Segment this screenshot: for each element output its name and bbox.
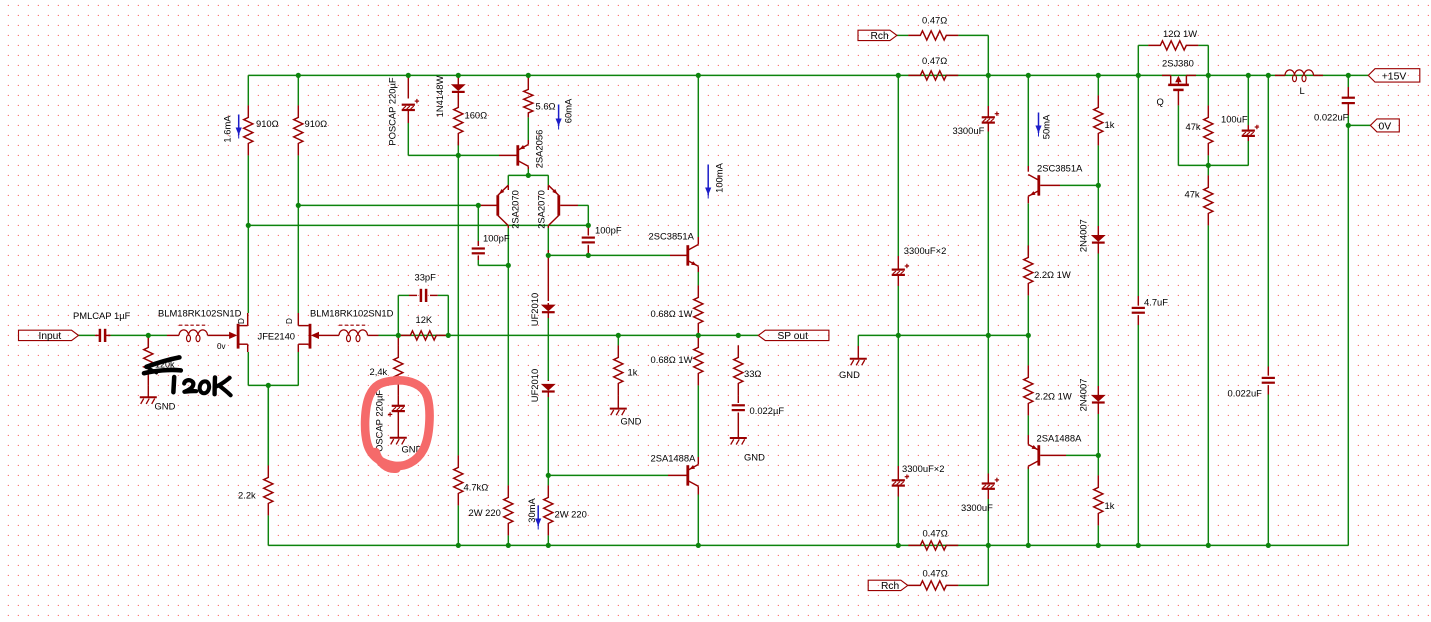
svg-text:2SC3851A: 2SC3851A [1037,163,1083,174]
svg-text:2,4k: 2,4k [370,366,388,377]
svg-text:0.47Ω: 0.47Ω [922,15,947,26]
svg-text:60mA: 60mA [563,98,574,123]
svg-text:30mA: 30mA [526,498,537,523]
svg-text:100pF: 100pF [483,233,510,244]
svg-text:2SA1488A: 2SA1488A [651,453,697,464]
svg-text:910Ω: 910Ω [305,118,328,129]
svg-text:UF2010: UF2010 [529,293,540,326]
svg-text:D: D [285,318,294,324]
svg-text:BLM18RK102SN1D: BLM18RK102SN1D [158,308,242,319]
svg-text:0.47Ω: 0.47Ω [923,528,948,539]
svg-text:JFE2140: JFE2140 [258,331,296,342]
svg-text:50mA: 50mA [1041,114,1052,139]
svg-text:GND: GND [621,416,642,427]
svg-text:2SA2070: 2SA2070 [510,190,521,229]
svg-text:1.6mA: 1.6mA [222,115,233,143]
svg-text:L: L [1300,85,1305,96]
svg-text:2SA1488A: 2SA1488A [1037,433,1083,444]
svg-text:PMLCAP 1µF: PMLCAP 1µF [73,310,131,321]
svg-text:GND: GND [839,369,860,380]
svg-text:GND: GND [155,401,176,412]
svg-text:2SC3851A: 2SC3851A [649,231,695,242]
svg-text:1k: 1k [1105,500,1115,511]
svg-text:GND: GND [744,452,765,463]
svg-text:2N4007: 2N4007 [1078,219,1089,252]
svg-text:0.47Ω: 0.47Ω [922,55,947,66]
svg-text:2W 220: 2W 220 [555,509,587,520]
svg-text:2N4007: 2N4007 [1078,379,1089,412]
svg-text:3300uF×2: 3300uF×2 [904,245,947,256]
svg-text:100uF: 100uF [1221,114,1248,125]
svg-text:Q: Q [1157,96,1164,107]
svg-text:47k: 47k [1185,189,1200,200]
svg-text:12Ω 1W: 12Ω 1W [1163,28,1197,39]
svg-text:SP out: SP out [778,331,809,342]
svg-text:Rch: Rch [881,581,899,592]
svg-text:0.68Ω 1W: 0.68Ω 1W [651,308,693,319]
svg-text:1k: 1k [1105,119,1115,130]
svg-text:3300uF×2: 3300uF×2 [902,463,945,474]
svg-text:33Ω: 33Ω [744,368,761,379]
svg-text:2SJ380: 2SJ380 [1162,58,1194,69]
svg-text:910Ω: 910Ω [256,118,279,129]
svg-text:2W 220: 2W 220 [469,507,501,518]
svg-text:3300uF: 3300uF [953,125,985,136]
svg-text:4.7uF: 4.7uF [1144,297,1168,308]
svg-text:100pF: 100pF [595,225,622,236]
svg-text:12K: 12K [416,314,433,325]
svg-text:160Ω: 160Ω [465,110,488,121]
svg-text:POSCAP 220µF: POSCAP 220µF [387,77,398,146]
svg-text:33pF: 33pF [415,272,437,283]
svg-text:3300uF: 3300uF [961,502,993,513]
svg-text:2.2Ω 1W: 2.2Ω 1W [1034,269,1071,280]
svg-text:0.022µF: 0.022µF [750,405,785,416]
svg-text:Input: Input [39,331,62,342]
svg-text:0.47Ω: 0.47Ω [923,568,948,579]
svg-text:UF2010: UF2010 [529,369,540,402]
svg-text:47k: 47k [1186,121,1201,132]
svg-text:0.022uF: 0.022uF [1228,388,1263,399]
svg-text:0v: 0v [217,342,225,351]
svg-text:4.7kΩ: 4.7kΩ [464,482,489,493]
svg-text:2.2Ω 1W: 2.2Ω 1W [1035,391,1072,402]
svg-text:5.6Ω: 5.6Ω [536,101,556,112]
svg-text:100mA: 100mA [714,162,725,192]
svg-text:Rch: Rch [871,31,889,42]
svg-text:0.68Ω 1W: 0.68Ω 1W [651,354,693,365]
svg-text:1k: 1k [628,367,638,378]
svg-text:2SA2056: 2SA2056 [534,130,545,169]
svg-text:0V: 0V [1378,121,1391,132]
svg-text:BLM18RK102SN1D: BLM18RK102SN1D [310,308,394,319]
svg-text:2.2k: 2.2k [238,490,256,501]
svg-text:D: D [237,318,246,324]
svg-text:2SA2070: 2SA2070 [536,190,547,229]
svg-text:0.022uF: 0.022uF [1314,112,1349,123]
svg-text:+15V: +15V [1382,72,1407,83]
svg-text:1N4148W: 1N4148W [434,76,445,118]
